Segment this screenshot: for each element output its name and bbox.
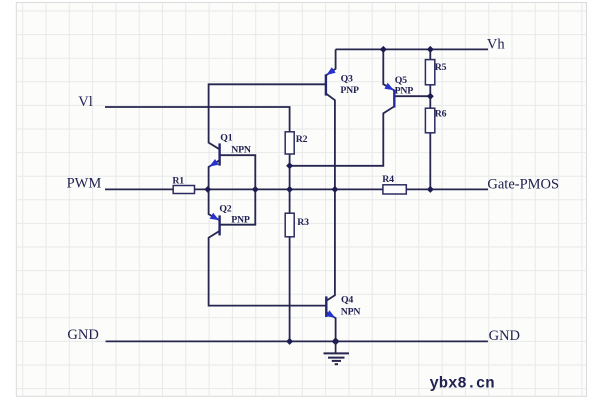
svg-text:NPN: NPN — [231, 145, 251, 156]
resistor R3 — [285, 213, 294, 237]
svg-text:GND: GND — [489, 328, 520, 344]
svg-text:R2: R2 — [296, 134, 308, 145]
transistor Q4 emitter arrow — [326, 310, 336, 318]
wire Q2 base tie — [220, 189, 256, 224]
resistor R5 — [425, 60, 434, 85]
wire node to Q5 collector — [290, 106, 395, 165]
wire Q2 collector to Q4 base — [209, 231, 327, 306]
wire main rail R1 to R4 — [195, 188, 383, 190]
svg-text:R4: R4 — [382, 174, 394, 185]
resistor R1 — [173, 186, 194, 194]
wire Vh rail — [336, 48, 488, 50]
node Q4 emitter GND junction — [332, 337, 340, 345]
node R5 R6 Q5 base junction — [427, 93, 434, 100]
svg-text:GND: GND — [67, 327, 98, 343]
node R4 R6 junction — [427, 186, 434, 193]
resistor R6 — [425, 108, 434, 133]
resistor R2 — [285, 132, 294, 154]
wire R5-R6 link — [429, 85, 431, 108]
node Q5 emitter Vh junction — [380, 46, 387, 53]
svg-text:Q5: Q5 — [395, 75, 407, 86]
wire Q5 emitter vertical — [383, 49, 394, 90]
svg-text:NPN: NPN — [341, 307, 361, 318]
svg-text:PNP: PNP — [231, 214, 250, 225]
svg-text:R3: R3 — [297, 217, 309, 228]
wire Q3 emitter vertical — [326, 49, 336, 75]
wire R6 bottom lead — [429, 133, 431, 190]
wire Q2 emitter — [209, 189, 220, 220]
svg-text:PNP: PNP — [340, 85, 359, 96]
transistor Q4 body — [325, 296, 327, 317]
wire Q4 collector vertical — [326, 189, 335, 300]
svg-text:ybx8.cn: ybx8.cn — [430, 374, 495, 392]
transistor Q1 body — [218, 143, 220, 165]
wire R5 top lead — [429, 49, 431, 59]
transistor Q5 body — [393, 90, 395, 108]
node emitters junction — [204, 186, 211, 193]
svg-text:Vl: Vl — [78, 94, 93, 110]
wire Q1 emitter — [209, 160, 220, 189]
svg-text:PNP: PNP — [395, 86, 414, 97]
wire PWM input — [105, 188, 173, 190]
svg-text:PWM: PWM — [67, 176, 102, 192]
svg-text:R5: R5 — [435, 62, 447, 73]
svg-text:Q3: Q3 — [341, 74, 353, 85]
transistor Q3 body — [325, 74, 327, 95]
wire rail R4 to Gate-PMOS — [406, 188, 488, 190]
svg-text:Q4: Q4 — [341, 295, 353, 306]
wire Q4 emitter to ground — [326, 312, 335, 341]
node R2R3 rail junction — [286, 186, 293, 193]
node R3 GND junction — [286, 338, 293, 345]
wire R2 to R3 link — [289, 154, 291, 213]
transistor Q2 body — [218, 215, 220, 235]
svg-text:Q1: Q1 — [220, 132, 232, 143]
wire Q1 base tie — [220, 155, 256, 189]
svg-text:Vh: Vh — [487, 36, 505, 52]
svg-text:Q2: Q2 — [219, 203, 231, 214]
node Q3Q4 rail junction — [331, 186, 338, 193]
transistor Q1 emitter arrow — [209, 159, 218, 167]
wire Vl net — [105, 107, 290, 132]
resistor R4 — [383, 185, 406, 194]
transistor Q3 emitter arrow — [326, 67, 335, 75]
wire Q3 base link to Q1 collector — [209, 84, 326, 149]
node bases junction — [252, 186, 259, 193]
node R2 bottom junction — [286, 162, 293, 169]
wire GND rail — [106, 340, 488, 342]
ground symbol — [324, 341, 350, 364]
wire Q5 base lead — [394, 95, 430, 97]
svg-text:R1: R1 — [172, 175, 184, 186]
node R5 Vh junction — [427, 46, 434, 53]
svg-text:Gate-PMOS: Gate-PMOS — [487, 176, 559, 192]
wire Q3 collector vertical — [326, 94, 335, 190]
transistor Q5 emitter arrow — [384, 83, 394, 90]
svg-text:R6: R6 — [435, 108, 447, 119]
transistor Q2 emitter arrow — [210, 213, 220, 220]
wire R3 bottom to GND — [289, 237, 291, 342]
